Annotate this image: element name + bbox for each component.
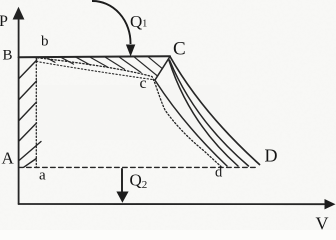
P axis arrowhead [13,7,25,20]
dashed line A-D [19,166,258,168]
line c-C [155,57,170,81]
V axis (horizontal) [19,203,324,205]
isobar line B-C (top) [19,56,170,57]
svg-text:a: a [39,168,46,184]
svg-text:C: C [173,39,186,60]
svg-text:D: D [265,146,278,166]
hatching: between isobar B-C and dome b-c [46,57,162,76]
Q2 arrowhead [116,192,128,203]
Q1 arrowhead [126,45,135,57]
Q1 heat-in curved arrow [92,1,131,44]
dotted saturation line a-b (vertical) [35,58,37,167]
svg-text:V: V [316,214,329,231]
expansion line C-D [170,57,260,165]
hatching: expansion region c-C-D (fan lines) [156,60,249,166]
svg-text:P: P [0,13,8,30]
svg-text:d: d [215,165,223,181]
P axis (vertical) [18,17,20,204]
V axis arrowhead [325,199,336,209]
Q2 heat-out arrow [121,168,123,192]
svg-text:b: b [41,34,49,50]
dotted saturation dome b-c-d [38,58,222,167]
svg-text:A: A [2,149,15,168]
dotted process curve b-c (lower) [37,62,155,80]
svg-text:B: B [3,48,13,64]
hatching: left band between axis and dotted line a-b [19,60,41,167]
svg-text:c: c [140,75,147,92]
